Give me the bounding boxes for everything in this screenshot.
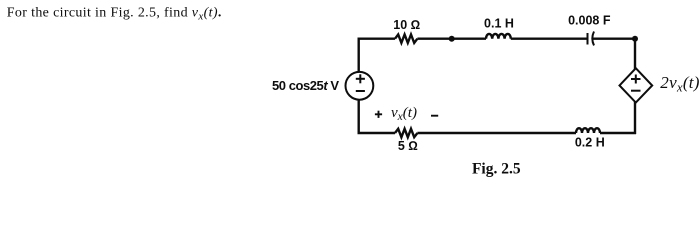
resistor R 5ohm — [395, 129, 417, 137]
voltage source Vs 50cos25t — [346, 72, 374, 100]
label plus polarity — [375, 111, 382, 118]
wire between resistor and inductor — [417, 38, 486, 40]
svg-text:5 Ω: 5 Ω — [398, 139, 418, 153]
svg-text:For the circuit in Fig. 2.5, f: For the circuit in Fig. 2.5, find vx(t). — [7, 6, 222, 23]
svg-text:50 cos25t V: 50 cos25t V — [272, 78, 339, 93]
wire capacitor to top-right corner — [593, 38, 636, 40]
problem statement text — [7, 6, 222, 23]
svg-text:10 Ω: 10 Ω — [393, 18, 420, 32]
resistor R 10ohm — [395, 35, 417, 43]
svg-text:0.1 H: 0.1 H — [484, 17, 514, 31]
svg-text:2vx(t): 2vx(t) — [660, 73, 699, 95]
inductor L 0.1H — [486, 34, 511, 39]
svg-text:0.2 H: 0.2 H — [575, 135, 605, 149]
inductor L 0.2H — [576, 128, 600, 133]
dependent source 2vx — [620, 68, 653, 102]
wire between 5ohm and 0.2H — [417, 132, 576, 134]
wire right branch upper — [634, 38, 636, 69]
svg-text:vx(t): vx(t) — [391, 105, 417, 123]
svg-text:0.008 F: 0.008 F — [568, 13, 611, 27]
wire between inductor and capacitor — [511, 38, 588, 40]
junction node dot top-right — [632, 36, 638, 42]
wire left branch lower — [358, 100, 360, 134]
wire top-left horizontal segment — [358, 38, 396, 40]
wire right branch lower — [634, 102, 636, 134]
junction node dot — [449, 36, 455, 42]
svg-text:Fig. 2.5: Fig. 2.5 — [472, 160, 521, 177]
wire bottom-left horizontal — [358, 132, 396, 134]
wire 0.2H to bottom-right corner — [600, 132, 636, 134]
wire left branch upper — [358, 38, 360, 73]
label minus polarity — [431, 115, 438, 117]
capacitor C 0.008F — [588, 32, 595, 46]
